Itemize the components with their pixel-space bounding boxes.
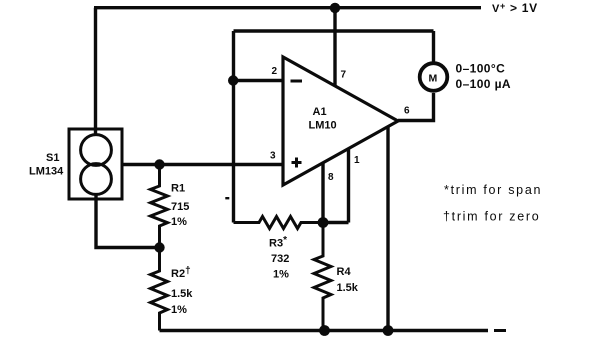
wire left vertical from rail to S1 [94,8,97,136]
op-amp A1 triangle [283,57,398,185]
op-amp plus sign [292,158,302,168]
wire pin 2 horizontal [233,79,283,82]
svg-text:M: M [429,73,438,85]
svg-text:8: 8 [328,172,334,183]
current source S1 box [69,129,122,199]
svg-text:*trim for span: *trim for span [444,183,542,197]
wire bottom rail [160,329,489,332]
svg-text:R3*: R3* [269,235,287,250]
node R3 / R4 / pin8 / pin1 junction [318,217,329,228]
svg-text:†trim for zero: †trim for zero [443,210,540,224]
svg-text:0–100°C: 0–100°C [456,62,506,76]
wire inverting input vertical [232,31,235,223]
svg-text:0–100 µA: 0–100 µA [456,77,511,91]
svg-text:1: 1 [354,155,360,166]
svg-text:1%: 1% [171,216,187,228]
node R1 bottom / R2 top junction [154,242,164,252]
wire feedback top horizontal to meter [234,29,434,32]
svg-text:1%: 1% [273,269,289,281]
svg-text:R2†: R2† [171,266,191,281]
wire S1 bottom to R1/R2 node [96,194,160,248]
svg-text:1.5k: 1.5k [337,282,359,294]
wire op-amp output to meter bottom [398,93,434,121]
svg-text:LM134: LM134 [29,166,64,178]
svg-text:R1: R1 [171,183,185,195]
resistor R3 horizontal [234,217,324,229]
wire output feedback vertical to bottom rail [386,127,389,331]
node pin 2 junction [228,75,238,85]
wire meter top [432,31,435,62]
wire pin 7 vertical [333,8,336,86]
wire pin 1 vertical and link [323,149,349,223]
wire pin 3 / S1 output horizontal [122,163,283,166]
node S1 / R1 / pin3 junction [154,159,164,169]
wire pin 8 vertical [321,163,324,223]
svg-text:V+ > 1V: V+ > 1V [492,1,538,15]
svg-text:A1: A1 [313,106,327,118]
resistor R1 [151,165,168,248]
resistor R2 [151,248,168,331]
svg-text:2: 2 [272,66,278,77]
svg-text:1%: 1% [171,304,187,316]
svg-text:R4: R4 [337,266,352,278]
svg-text:S1: S1 [46,152,59,164]
node junction pin7 tap on rail [330,3,340,13]
svg-text:1.5k: 1.5k [171,288,193,300]
op-amp minus sign [291,80,303,83]
svg-text:715: 715 [171,201,189,213]
svg-text:LM10: LM10 [309,120,337,132]
wire bottom rail dash [494,329,506,332]
node feedback bottom junction [383,325,394,336]
current source S1 lower circle [81,164,112,195]
svg-text:732: 732 [271,253,289,265]
current source S1 upper circle [81,135,112,166]
svg-text:7: 7 [341,70,347,81]
wire top supply rail [94,6,481,9]
node R4 bottom junction [319,325,330,336]
meter M circle [420,63,448,91]
resistor R4 [314,223,331,331]
wire stray dash artifact [225,197,229,199]
svg-text:6: 6 [404,106,410,117]
svg-text:3: 3 [270,151,276,162]
